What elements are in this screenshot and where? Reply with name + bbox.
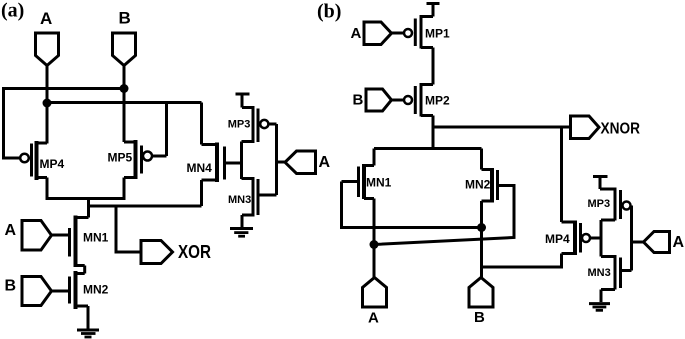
wire MN1b source down to A xyxy=(373,199,376,279)
wire A vertical (a) xyxy=(46,66,49,144)
node dot (MN2b source / B) xyxy=(477,223,486,232)
wire inverter-b input vertical xyxy=(630,206,633,271)
transistor MN4 xyxy=(200,103,203,145)
svg-text:A: A xyxy=(5,222,17,239)
svg-text:XOR: XOR xyxy=(178,242,211,262)
wire stub to output pin A (a) xyxy=(277,161,286,164)
output pin XNOR xyxy=(571,116,600,139)
svg-text:B: B xyxy=(119,9,131,28)
wire drop to MP4 drain xyxy=(560,127,563,222)
svg-text:MP3: MP3 xyxy=(228,119,251,131)
wire MN1b gate loop xyxy=(342,182,482,228)
svg-text:B: B xyxy=(474,309,485,326)
node B junction dot (a) xyxy=(120,84,129,93)
wire XNOR line xyxy=(433,126,571,129)
wire XOR tap xyxy=(116,206,141,252)
svg-text:(a): (a) xyxy=(1,0,24,22)
VDD supply (inverter b) xyxy=(593,175,608,178)
svg-text:MN2: MN2 xyxy=(83,283,109,297)
wire MP4 drain down xyxy=(46,178,49,201)
svg-text:MP2: MP2 xyxy=(425,94,450,108)
svg-text:A: A xyxy=(368,310,379,327)
svg-text:XNOR: XNOR xyxy=(601,121,641,138)
transistor MN3 (a) xyxy=(242,177,253,180)
wire PMOS drain rail (a) xyxy=(46,197,126,200)
VDD supply (part b top) xyxy=(427,2,440,5)
wire NMOS rail (b) xyxy=(374,147,482,150)
svg-text:A: A xyxy=(40,9,52,28)
node dot (MN1b source / A) xyxy=(370,240,379,249)
wire MN2b source down to B xyxy=(480,201,483,278)
transistor MN3 (b) xyxy=(601,255,615,258)
wire MP3a drain xyxy=(242,140,253,143)
wire MN2 source down xyxy=(87,306,90,330)
wire MP3b drain xyxy=(601,219,615,222)
output pin A (a) xyxy=(285,151,316,174)
wire MP5 drain down xyxy=(123,178,126,201)
transistor MP3 (b) xyxy=(600,188,615,191)
svg-text:MN1: MN1 xyxy=(83,231,109,245)
ground (inverter b) xyxy=(589,302,610,305)
transistor MP4 xyxy=(20,154,29,163)
wire stub to output pin A (b) xyxy=(632,241,645,244)
wire B vertical (a) xyxy=(123,66,126,143)
svg-text:MN1: MN1 xyxy=(366,176,392,190)
VDD supply (inverter a) xyxy=(236,93,250,96)
input pin B (part b bottom) xyxy=(469,278,493,308)
svg-text:MN4: MN4 xyxy=(187,161,213,175)
ground (part a bottom) xyxy=(77,329,99,332)
transistor MN2 (a) xyxy=(68,277,71,304)
wire A rail (a) xyxy=(47,101,202,104)
wire B rail to MP4 gate (a) xyxy=(4,89,125,159)
svg-text:A: A xyxy=(319,154,331,171)
wire center drop / MN1 drain vertical xyxy=(87,199,90,218)
wire cross link MN1 source to MN2 gate xyxy=(374,186,514,245)
svg-text:MP4: MP4 xyxy=(40,157,65,171)
svg-text:A: A xyxy=(673,234,685,251)
transistor MP1 xyxy=(421,15,433,18)
svg-text:A: A xyxy=(351,25,362,42)
svg-text:(b): (b) xyxy=(317,1,341,23)
svg-text:MN2: MN2 xyxy=(465,178,491,192)
wire MP4 source line xyxy=(482,254,562,268)
wire inverter-a input vertical xyxy=(275,124,278,195)
svg-text:MP3: MP3 xyxy=(588,198,611,210)
input pin A (part b bottom) xyxy=(363,278,387,308)
transistor MP4 xyxy=(562,221,576,224)
svg-text:MP5: MP5 xyxy=(108,151,133,165)
transistor MN1 (a) xyxy=(68,228,71,257)
svg-text:MP4: MP4 xyxy=(545,232,570,246)
wire MN1-MN2 link xyxy=(83,266,86,274)
output pin XOR xyxy=(141,241,173,264)
wire MP2 drain down xyxy=(432,116,435,149)
transistor MP5 xyxy=(134,140,138,179)
transistor MP2 xyxy=(421,83,433,86)
wire output rail (a) xyxy=(89,205,202,208)
transistor MN2 (b) xyxy=(480,149,483,170)
wire MP1-MP2 link xyxy=(432,48,435,85)
ground (inverter a) xyxy=(230,227,253,230)
svg-text:B: B xyxy=(5,278,17,295)
svg-text:MP1: MP1 xyxy=(425,27,450,41)
node A junction dot (a) xyxy=(43,99,52,108)
output pin A (b) xyxy=(644,232,670,253)
transistor MP3 (a) xyxy=(242,106,253,109)
svg-text:MN3: MN3 xyxy=(588,267,611,279)
svg-text:B: B xyxy=(353,92,364,109)
transistor MN1 (b) xyxy=(373,149,376,166)
svg-text:MN3: MN3 xyxy=(228,194,251,206)
